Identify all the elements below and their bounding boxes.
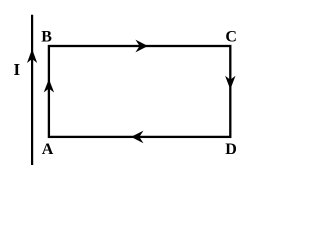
svg-text:A: A	[42, 141, 54, 158]
arrowhead on side AB (up)	[44, 79, 54, 93]
svg-text:D: D	[225, 141, 237, 158]
svg-text:I: I	[14, 60, 21, 79]
arrowhead on side BC (right)	[135, 40, 148, 53]
arrowhead on wire (current direction up)	[27, 49, 37, 63]
svg-text:B: B	[41, 28, 52, 45]
arrowhead on side DA (left)	[131, 131, 144, 144]
straight wire carrying current I	[31, 15, 33, 165]
svg-text:C: C	[225, 28, 237, 45]
rectangular loop ABCD	[49, 46, 230, 137]
arrowhead on side CD (down)	[225, 76, 235, 90]
